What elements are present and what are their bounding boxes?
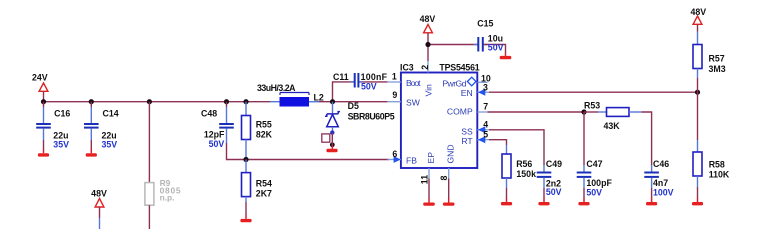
capacitor C48 xyxy=(201,102,234,149)
supply 48V right xyxy=(690,7,706,36)
svg-text:33uH/3.2A: 33uH/3.2A xyxy=(257,83,296,93)
pin 10 PwrGd stub xyxy=(442,73,490,88)
svg-text:48V: 48V xyxy=(420,14,436,24)
svg-text:COMP: COMP xyxy=(447,107,473,117)
wire R9 top xyxy=(148,102,150,183)
svg-text:12pF: 12pF xyxy=(204,129,225,139)
wire R9 bottom xyxy=(148,205,150,229)
node 24V junction xyxy=(41,99,46,104)
svg-text:3M3: 3M3 xyxy=(709,64,726,74)
pin 3 EN stub xyxy=(461,82,489,98)
ground under R54 xyxy=(240,202,251,222)
svg-text:1: 1 xyxy=(392,72,397,82)
node R9 junction xyxy=(147,99,152,104)
IC U1 : IC3 TPS54561 box xyxy=(400,63,480,168)
svg-text:EP: EP xyxy=(426,152,436,164)
svg-text:C47: C47 xyxy=(586,159,602,169)
svg-text:100V: 100V xyxy=(653,188,674,198)
pin 6 FB stub xyxy=(387,149,417,166)
pin 8 GND stub xyxy=(439,144,456,180)
wire EP to ground xyxy=(428,179,430,199)
svg-text:R58: R58 xyxy=(709,159,725,169)
svg-text:50V: 50V xyxy=(546,187,562,197)
svg-text:RT: RT xyxy=(461,136,473,146)
ground under D5 xyxy=(326,133,337,153)
resistor R55 xyxy=(242,102,273,160)
capacitor C11 xyxy=(333,72,388,92)
svg-text:GND: GND xyxy=(445,144,455,163)
wire 24V rail xyxy=(44,101,271,103)
supply 48V bottom-left xyxy=(91,189,107,230)
svg-text:C46: C46 xyxy=(653,159,669,169)
svg-text:R56: R56 xyxy=(516,159,532,169)
wire Vin net xyxy=(428,45,478,62)
capacitor C16 xyxy=(36,102,70,150)
svg-text:110K: 110K xyxy=(709,169,730,179)
svg-text:L2: L2 xyxy=(314,92,324,102)
svg-text:C11: C11 xyxy=(333,72,349,82)
node EN junction xyxy=(695,90,700,95)
svg-text:4: 4 xyxy=(483,120,488,130)
svg-text:50V: 50V xyxy=(488,42,504,52)
svg-text:n.p.: n.p. xyxy=(160,192,175,202)
ground under C16 xyxy=(38,140,49,157)
svg-text:Boot: Boot xyxy=(406,78,421,88)
ground under C46 xyxy=(646,188,657,205)
resistor R9 n.p. xyxy=(145,178,181,205)
svg-text:PwrGd: PwrGd xyxy=(442,78,466,88)
svg-text:50V: 50V xyxy=(209,139,225,149)
wire FB net xyxy=(227,143,390,160)
svg-text:8: 8 xyxy=(439,176,449,181)
wire COMP net xyxy=(488,111,585,113)
inductor L2 xyxy=(257,83,324,107)
svg-text:SS: SS xyxy=(461,126,473,136)
supply 24V xyxy=(32,73,48,102)
node C14 junction xyxy=(89,99,94,104)
capacitor C15 xyxy=(474,19,506,54)
resistor R57 xyxy=(693,36,726,92)
svg-text:D5: D5 xyxy=(348,101,359,111)
wire EN net xyxy=(489,91,698,93)
node R55 junction xyxy=(243,99,248,104)
svg-text:TPS54561: TPS54561 xyxy=(439,63,479,73)
svg-text:2K7: 2K7 xyxy=(256,188,272,198)
svg-text:35V: 35V xyxy=(102,139,118,149)
wire COMP to C47 xyxy=(583,112,585,165)
resistor R53 xyxy=(584,101,642,132)
ground under C47 xyxy=(578,188,589,205)
svg-text:2: 2 xyxy=(420,65,430,70)
supply 48V top xyxy=(420,14,436,45)
node COMP junction xyxy=(581,109,586,114)
svg-text:50V: 50V xyxy=(586,188,602,198)
svg-text:43K: 43K xyxy=(604,121,621,131)
svg-text:5: 5 xyxy=(483,129,488,139)
svg-text:C49: C49 xyxy=(546,159,562,169)
svg-text:C48: C48 xyxy=(201,109,217,119)
svg-text:11: 11 xyxy=(419,175,429,184)
pin 2 Vin stub xyxy=(420,61,434,97)
svg-text:82K: 82K xyxy=(256,130,273,140)
pin 4 SS stub xyxy=(461,120,489,137)
resistor R58 xyxy=(693,92,730,187)
wire GND pin to ground xyxy=(448,179,450,199)
svg-text:150k: 150k xyxy=(516,169,536,179)
svg-text:3: 3 xyxy=(483,82,488,92)
node C48 junction xyxy=(224,99,229,104)
wire R53 to C46 xyxy=(642,112,652,165)
svg-text:100nF: 100nF xyxy=(361,72,388,82)
svg-text:R53: R53 xyxy=(584,101,600,111)
svg-text:24V: 24V xyxy=(32,73,48,83)
svg-text:IC3: IC3 xyxy=(400,63,414,73)
pin 11 EP stub xyxy=(419,152,436,184)
svg-text:7: 7 xyxy=(483,102,488,112)
wire RT net xyxy=(489,140,507,145)
svg-text:FB: FB xyxy=(406,155,417,165)
svg-text:R55: R55 xyxy=(256,119,272,129)
ground under EP xyxy=(423,198,435,206)
svg-text:SW: SW xyxy=(406,97,421,107)
svg-text:R54: R54 xyxy=(256,178,272,188)
ground under R56 xyxy=(501,188,512,205)
pin 9 SW stub xyxy=(387,90,420,107)
ground under R58 xyxy=(692,187,703,205)
svg-text:C14: C14 xyxy=(103,109,119,119)
node FB junction xyxy=(243,157,248,162)
ground under C14 xyxy=(86,140,97,157)
svg-text:SBR8U60P5: SBR8U60P5 xyxy=(348,112,395,122)
ground under C49 xyxy=(538,188,549,205)
svg-text:EN: EN xyxy=(461,88,473,98)
pin 7 COMP stub xyxy=(447,102,488,117)
svg-text:Vin: Vin xyxy=(424,84,434,96)
diode D5 SBR8U60P5 xyxy=(322,101,395,147)
svg-text:C16: C16 xyxy=(54,109,70,119)
capacitor C47 xyxy=(577,159,613,197)
resistor R56 xyxy=(502,145,536,188)
node SW junction xyxy=(330,99,335,104)
pin 5 RT stub xyxy=(461,129,489,146)
wire SS net xyxy=(489,130,544,165)
svg-text:48V: 48V xyxy=(690,7,706,17)
ground under GND pin xyxy=(443,198,455,206)
svg-text:C15: C15 xyxy=(477,19,493,29)
capacitor C46 xyxy=(644,159,673,197)
capacitor C14 xyxy=(84,102,119,150)
svg-text:9: 9 xyxy=(392,90,397,100)
capacitor C49 xyxy=(537,159,562,197)
svg-text:35V: 35V xyxy=(53,139,69,149)
resistor R54 xyxy=(242,160,273,203)
pin 1 Boot stub xyxy=(387,72,421,88)
svg-text:50V: 50V xyxy=(361,82,377,92)
svg-text:48V: 48V xyxy=(91,189,107,199)
svg-text:6: 6 xyxy=(392,149,397,159)
node Vin junction xyxy=(425,42,430,47)
ground under C15 xyxy=(500,53,512,59)
svg-text:R57: R57 xyxy=(709,54,725,64)
wire SW net xyxy=(319,82,387,102)
